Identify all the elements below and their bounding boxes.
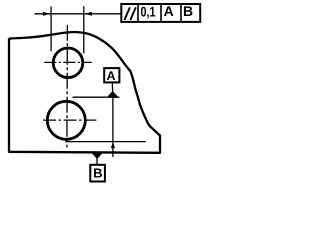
- feature control frame divider 1: [137, 4, 139, 22]
- svg-text:A: A: [106, 69, 115, 83]
- up arrowhead on vertical dimension: [111, 142, 115, 148]
- svg-text:0,1: 0,1: [141, 4, 156, 20]
- datum B box: [90, 165, 105, 182]
- feature control frame box: [121, 4, 200, 22]
- dimension line to feature control frame: [35, 13, 122, 15]
- right extension line: [83, 6, 85, 53]
- svg-text:B: B: [93, 166, 102, 181]
- part outline: [9, 32, 160, 153]
- vertical centerline: [66, 25, 69, 148]
- upper hole horizontal centerline: [44, 61, 91, 63]
- left arrowhead: [43, 12, 50, 16]
- datum A box: [104, 68, 119, 82]
- feature control frame divider 2: [160, 4, 162, 22]
- tangent line at top of lower hole: [73, 96, 120, 98]
- lower thin line: [65, 141, 146, 143]
- feature control frame divider 3: [180, 4, 182, 22]
- lower hole: [47, 101, 85, 139]
- vertical dimension line: [112, 97, 114, 157]
- svg-text:B: B: [183, 3, 193, 19]
- datum B leader: [96, 159, 98, 165]
- parallelism symbol: [124, 7, 135, 20]
- svg-text:A: A: [164, 3, 174, 19]
- datum A leader: [111, 82, 113, 91]
- datum A triangle: [107, 91, 119, 98]
- lower hole horizontal centerline: [43, 119, 96, 121]
- right arrowhead: [85, 12, 93, 16]
- datum B triangle: [92, 153, 102, 159]
- upper hole: [53, 48, 83, 78]
- left extension line: [50, 7, 52, 52]
